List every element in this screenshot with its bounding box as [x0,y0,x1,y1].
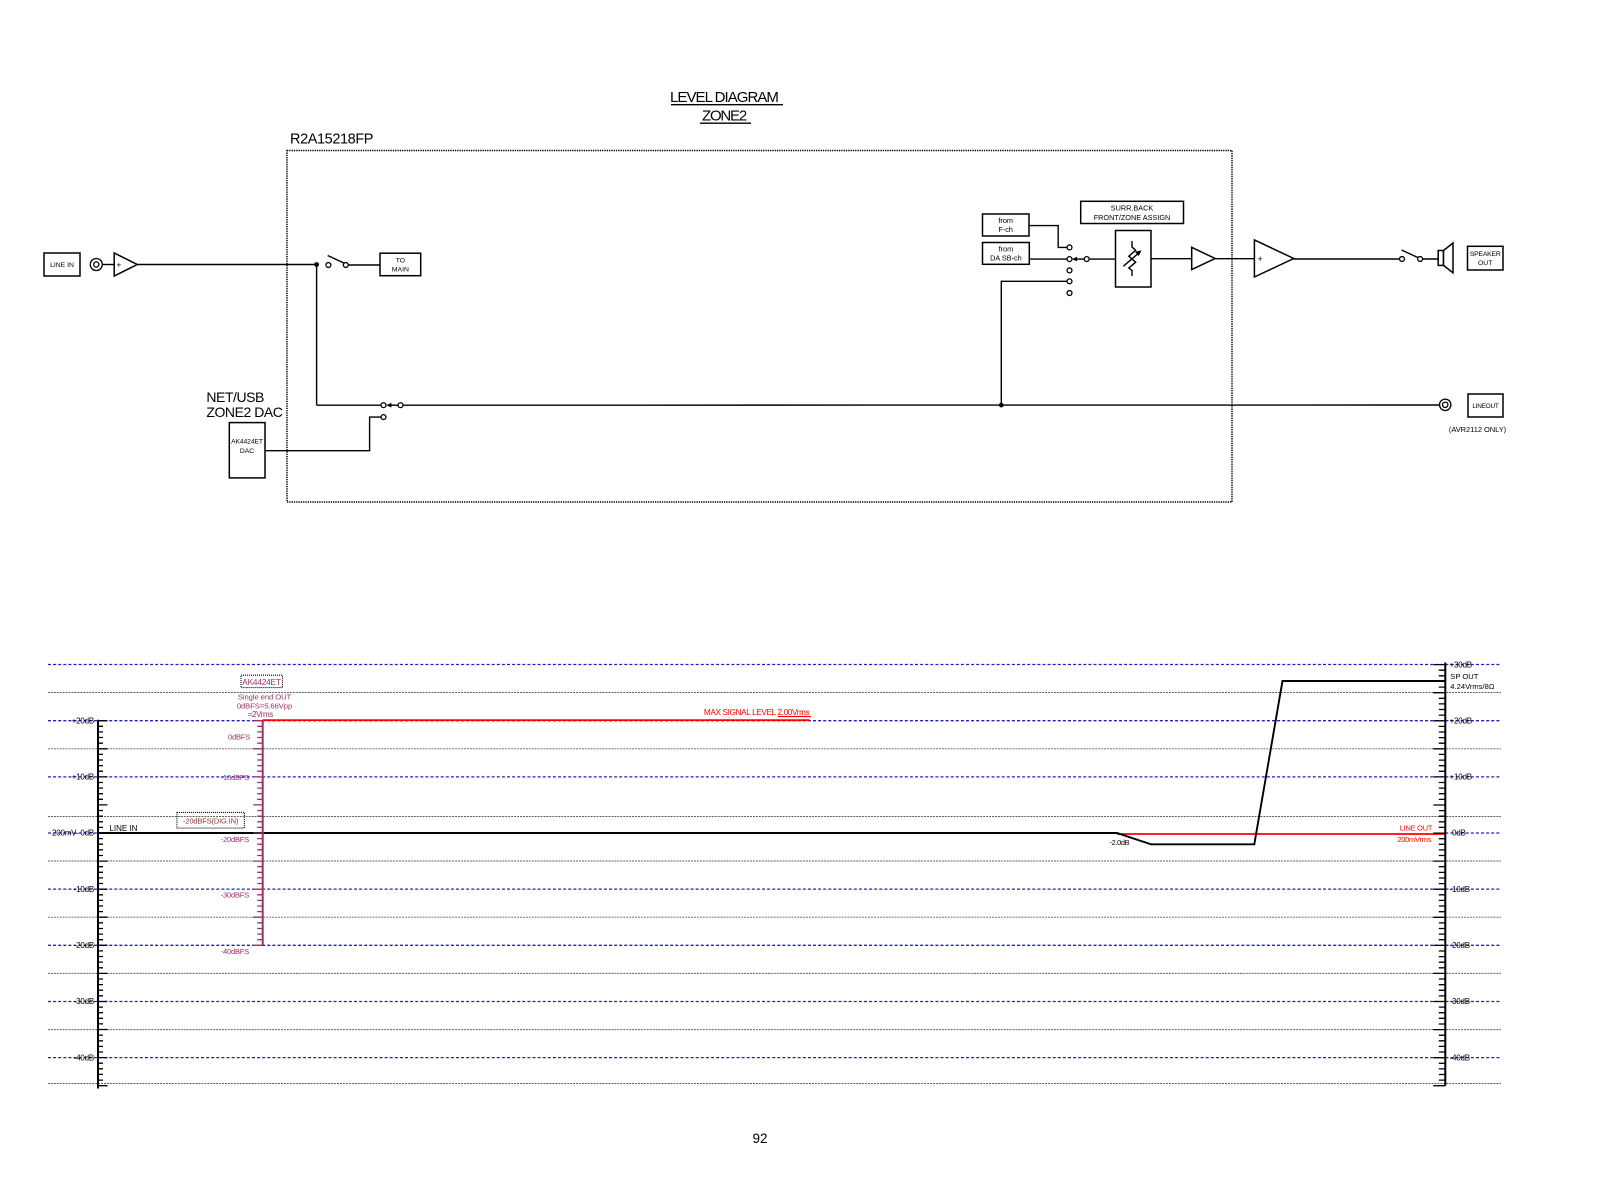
svg-text:0dB: 0dB [1452,829,1466,838]
wire junction down [316,265,318,406]
svg-text:-20dB: -20dB [1450,941,1470,950]
SPEAKER OUT box [1468,246,1504,270]
svg-text:FRONT/ZONE ASSIGN: FRONT/ZONE ASSIGN [1094,213,1171,222]
node junction B [999,403,1004,408]
wire switch to speaker [1422,258,1438,260]
wire from DA SB-ch to contact [1029,258,1067,260]
-20dBFS(DIG.IN) dotted box [177,812,245,828]
svg-text:SP OUT: SP OUT [1450,672,1478,681]
svg-text:ZONE2 DAC: ZONE2 DAC [206,404,282,420]
svg-text:+: + [1258,254,1263,264]
left axis labels [52,716,94,1062]
svg-text:-40dBFS: -40dBFS [221,947,249,956]
selector wiper arrow [1072,257,1089,262]
from F-ch box [983,214,1030,236]
chart: gray minor grid lines [48,693,1501,1084]
svg-text:R2A15218FP: R2A15218FP [290,132,373,148]
purple scale labels [221,732,250,956]
svg-text:-20dB: -20dB [74,941,94,950]
svg-text:TO: TO [396,257,405,264]
svg-text:92: 92 [752,1131,767,1146]
svg-text:MAIN: MAIN [392,266,409,273]
svg-text:-30dB: -30dB [1450,997,1470,1006]
svg-text:LINE OUT: LINE OUT [1400,823,1433,832]
wire DAC to zone2 switch [265,417,381,451]
TO MAIN box [380,253,421,276]
zone2 source switch SW2 [381,403,403,420]
svg-text:LEVEL DIAGRAM: LEVEL DIAGRAM [670,89,778,106]
svg-text:Single end OUT: Single end OUT [238,693,292,702]
svg-text:200mV- 0dB: 200mV- 0dB [52,829,94,838]
svg-text:ZONE2: ZONE2 [702,108,747,125]
svg-text:LINE IN: LINE IN [109,824,137,833]
svg-text:OUT: OUT [1478,260,1492,267]
svg-text:-30dB: -30dB [74,997,94,1006]
DAC AK4424ET box [229,423,265,478]
title ZONE2 [700,108,751,125]
svg-text:4.24Vrms/8Ω: 4.24Vrms/8Ω [1450,682,1495,691]
svg-text:DAC: DAC [240,448,254,455]
svg-text:F-ch: F-ch [998,225,1013,234]
svg-text:-20dBFS(DIG.IN): -20dBFS(DIG.IN) [183,816,239,825]
LINE IN box [44,253,80,276]
speaker switch SW3 [1400,250,1423,261]
svg-text:from: from [998,216,1013,225]
wire buffer to power amp [1215,258,1254,260]
LINEOUT jack connector [1440,399,1451,410]
assign selector contacts [1067,245,1072,295]
LINEOUT box [1468,394,1503,417]
purple DAC ruler [253,720,263,946]
wire SW1 to TO MAIN box [348,264,380,266]
svg-text:-10dB: -10dB [1450,885,1470,894]
buffer amp (small triangle) [1192,247,1215,269]
svg-text:+30dB: +30dB [1450,660,1472,669]
svg-text:-40dB: -40dB [74,1053,94,1062]
svg-text:-2.0dB: -2.0dB [1110,838,1130,847]
svg-text:+10dB: +10dB [1450,773,1472,782]
wire op-amp to junction [137,264,316,266]
MAX SIGNAL LEVEL label [704,708,811,717]
svg-text:-10dB: -10dB [74,885,94,894]
chart: blue major grid lines [48,665,1500,1058]
wire zone2 bus [403,404,1440,406]
svg-text:MAX SIGNAL LEVEL 2.00Vrms: MAX SIGNAL LEVEL 2.00Vrms [704,708,810,717]
svg-text:-40dB: -40dB [1450,1053,1470,1062]
chart: black signal level trace [98,681,1446,844]
label NET/USB ZONE2 DAC [206,389,282,420]
svg-text:SURR.BACK: SURR.BACK [1111,204,1154,213]
svg-text:LINE IN: LINE IN [50,262,74,269]
wire power amp to speaker switch [1294,258,1400,260]
svg-text:from: from [999,245,1014,254]
DAC output notes (purple) [237,693,292,719]
svg-text:+: + [117,261,122,270]
svg-text:=2Vrms: =2Vrms [248,710,273,719]
SP OUT label [1450,672,1495,691]
svg-text:-10dBFS: -10dBFS [221,773,249,782]
wire junction B up to assign switch [1001,281,1067,405]
switch SW1 (to main) [326,256,348,268]
svg-text:SPEAKER: SPEAKER [1470,251,1501,258]
LINE OUT label (red) [1397,823,1433,844]
chart: red line out level line [1117,833,1445,835]
wire attenuator to buffer [1151,258,1192,260]
wire selector to attenuator [1089,258,1116,260]
node junction A [314,262,319,267]
chart: red max signal level line [263,719,810,721]
svg-text:+20dB: +20dB [72,716,94,725]
SURR.BACK FRONT/ZONE ASSIGN box [1081,201,1184,223]
AK4424ET dotted box (chart) [241,675,283,687]
op-amp buffer (line in) [114,253,137,276]
from DA SB-ch box [983,243,1030,265]
svg-text:DA SB-ch: DA SB-ch [990,254,1022,263]
svg-text:NET/USB: NET/USB [206,389,264,405]
left ruler [98,720,108,1089]
power amp triangle [1254,240,1293,277]
LINE IN jack connector [90,259,102,271]
wire jack to op-amp [102,264,114,266]
attenuator (volume) box U2 [1116,231,1152,288]
right ruler [1433,663,1445,1086]
speaker icon [1438,243,1453,273]
wire from F-ch to contact [1029,226,1067,248]
IC boundary dashed box R2A15218FP [287,151,1232,503]
svg-text:200mVrms: 200mVrms [1397,835,1431,844]
svg-text:(AVR2112 ONLY): (AVR2112 ONLY) [1449,425,1507,434]
svg-text:0dBFS: 0dBFS [228,732,250,741]
svg-text:+10dB: +10dB [72,773,94,782]
wire junction to zone2 switch [317,404,382,406]
title LEVEL DIAGRAM [670,89,783,106]
svg-text:AK4424ET: AK4424ET [242,677,281,687]
svg-text:-20dBFS: -20dBFS [221,835,249,844]
svg-text:+20dB: +20dB [1450,716,1472,725]
right axis labels [1450,660,1472,1062]
svg-text:AK4424ET: AK4424ET [231,439,263,446]
svg-text:-30dBFS: -30dBFS [221,890,249,899]
svg-text:LINEOUT: LINEOUT [1472,403,1499,410]
